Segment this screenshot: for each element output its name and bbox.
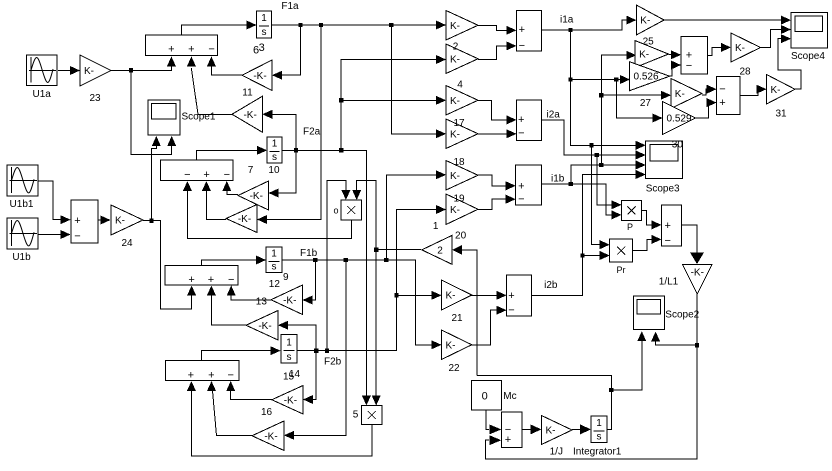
product o: [334, 200, 362, 220]
svg-text:+: +: [505, 434, 511, 446]
svg-text:K-: K-: [735, 43, 745, 54]
gain 17: [446, 118, 478, 149]
wire sum7 output to integrator10: [197, 146, 267, 160]
svg-text:K-: K-: [640, 16, 650, 27]
svg-text:0: 0: [482, 391, 488, 403]
svg-text:0.529: 0.529: [667, 114, 692, 125]
svg-text:−: −: [518, 128, 524, 140]
wire gain16 output to sum15 port3: [226, 381, 272, 400]
svg-text:11: 11: [242, 87, 253, 98]
svg-text:−: −: [227, 370, 233, 382]
wire F2b up to gain -K- sum12: [278, 321, 316, 351]
sum 6 top: [146, 35, 218, 56]
svg-text:-K-: -K-: [283, 295, 296, 306]
wire gain13 output to sum12 port3: [227, 286, 271, 301]
wire gain31 output to Scope4 port3: [778, 34, 801, 89]
integrator 15: [281, 335, 301, 383]
wire F1b up to gain18: [386, 170, 446, 260]
svg-text:+: +: [188, 370, 194, 382]
wire i1a to product Pr port1: [592, 145, 610, 249]
gain 28: [731, 33, 761, 78]
svg-text:Scope4: Scope4: [791, 51, 825, 62]
svg-text:-K-: -K-: [258, 321, 271, 332]
sine source U1b: [7, 218, 38, 263]
wire gain 0.526 output to sum A port2: [670, 61, 681, 77]
sum B: [717, 77, 740, 115]
svg-text:18: 18: [453, 157, 465, 168]
svg-text:s: s: [272, 152, 277, 163]
wire F1b down to gain -K- bottom: [284, 260, 346, 440]
gain 11: [242, 60, 272, 98]
sine source U1a: [27, 55, 58, 100]
svg-text:U1a: U1a: [33, 89, 52, 100]
wire gain4 output to sum i2a port1: [478, 100, 517, 124]
svg-text:22: 22: [448, 363, 460, 374]
sum i2a: [517, 100, 542, 141]
svg-text:i2a: i2a: [547, 110, 561, 121]
svg-text:s: s: [272, 262, 277, 273]
svg-text:-K-: -K-: [264, 431, 277, 442]
svg-text:31: 31: [775, 109, 787, 120]
svg-text:1/J: 1/J: [550, 447, 563, 458]
svg-text:+: +: [518, 180, 524, 192]
wire 1/L1 branch to Scope2 port2: [651, 332, 697, 346]
wire gain25 output to sum A port1: [669, 50, 682, 59]
svg-text:1: 1: [272, 139, 278, 150]
wire F2b up to product o port1: [327, 181, 350, 351]
svg-text:−: −: [664, 235, 670, 247]
node i2a label: [547, 110, 561, 121]
gain 13: [256, 285, 303, 315]
svg-text:1: 1: [596, 418, 602, 429]
svg-text:-K-: -K-: [691, 268, 704, 279]
wire i1a branch to gain 0.529: [616, 80, 662, 123]
svg-text:2: 2: [453, 42, 459, 53]
wire product5 output to sum15 port1: [187, 381, 372, 456]
svg-text:i1b: i1b: [551, 174, 565, 185]
svg-text:−: −: [184, 169, 190, 181]
node F1b label: [300, 248, 318, 259]
svg-text:+: +: [719, 97, 725, 109]
svg-text:-K-: -K-: [243, 110, 256, 121]
wire gain 0.529 output to sum B port2: [696, 98, 717, 118]
gain K- to Scope4: [636, 5, 664, 35]
gain 1/J: [542, 416, 573, 458]
svg-text:2: 2: [437, 245, 443, 256]
svg-text:−: −: [519, 40, 525, 52]
svg-text:s: s: [262, 27, 267, 38]
sum A: [681, 36, 707, 74]
sine source U1b1: [7, 165, 38, 210]
node gain24 output junction to Scope1 port1: [143, 136, 161, 223]
node F1a label: [281, 1, 299, 12]
wire junction down to product5 port2: [372, 250, 381, 406]
wire sum1 output to integrator3: [181, 21, 256, 36]
svg-text:Scope1: Scope1: [182, 112, 216, 123]
wire i1b up to Scope3 port3: [571, 161, 646, 185]
constant Mc: [472, 381, 517, 410]
node i2a output line to Scope3 port2: [542, 120, 646, 160]
svg-text:-K-: -K-: [284, 395, 297, 406]
svg-text:K-: K-: [115, 216, 125, 227]
svg-text:+: +: [203, 169, 209, 181]
wire gain K- top output to sum i1a port1: [478, 25, 516, 34]
gain 1/L1: [659, 265, 712, 295]
svg-text:K-: K-: [446, 291, 456, 302]
wire sum P output to gain 1/L1: [682, 225, 704, 264]
gain 4: [446, 80, 478, 116]
wire product P output to sum P port1: [642, 210, 662, 229]
integrator 10: [248, 137, 282, 176]
sum U1b: [71, 200, 98, 243]
wire gain22 output to sum i2b port2: [472, 306, 507, 345]
svg-text:3: 3: [259, 42, 265, 54]
sum 7: [161, 160, 233, 181]
wire i1a branch to gain 0.526: [571, 75, 631, 84]
wire F1a drop to gain -K- B: [257, 25, 321, 224]
svg-text:−: −: [686, 60, 692, 72]
svg-text:24: 24: [121, 238, 133, 249]
wire F2b to gain16: [303, 351, 316, 404]
wire gain28 output to Scope4 port2: [761, 25, 792, 47]
svg-text:1: 1: [261, 13, 267, 24]
svg-text:P: P: [627, 222, 633, 232]
svg-text:20: 20: [455, 230, 467, 241]
wire i2b to product Pr port2: [583, 251, 610, 260]
sum 15: [166, 361, 239, 382]
svg-text:K-: K-: [546, 426, 556, 437]
svg-text:25: 25: [643, 37, 655, 48]
svg-text:-K-: -K-: [253, 71, 266, 82]
svg-text:27: 27: [640, 98, 652, 109]
node F1a line from integrator3 to gain K- top middle: [272, 21, 446, 30]
node F2b label: [324, 357, 342, 368]
svg-text:U1b1: U1b1: [10, 199, 34, 210]
wire i2a to product P port1: [597, 155, 622, 209]
gain -K- A F2a to sum7: [238, 181, 269, 210]
wire gain2 output to sum i1a port2: [478, 41, 516, 59]
gain 2: [446, 42, 478, 74]
svg-text:9: 9: [283, 272, 289, 283]
wire gain -K- F2a to sum1 port2 diagonal: [187, 56, 232, 114]
svg-text:+: +: [74, 215, 80, 227]
node i2b label: [544, 280, 558, 291]
node i1b output line to product P port2: [542, 182, 622, 220]
svg-text:−: −: [518, 194, 524, 206]
gain 27: [640, 78, 702, 109]
wire sum A output to gain28: [707, 43, 731, 56]
wire gain -K- F2b output to sum12 port2: [207, 286, 246, 326]
svg-text:12: 12: [269, 279, 281, 290]
svg-text:K-: K-: [450, 54, 460, 65]
node gain 1/L1 output down to sum Mc port2: [485, 294, 699, 459]
svg-text:1/L1: 1/L1: [659, 277, 679, 288]
node F1b line from integrator9 to gain22: [282, 258, 442, 350]
wire F1a drop to gain17: [391, 25, 446, 138]
wire U1a to gain 23: [58, 66, 80, 75]
sum 12: [165, 266, 238, 287]
sum i1b: [516, 165, 542, 206]
gain 19: [446, 194, 478, 225]
sum i1a: [516, 10, 541, 51]
gain 23: [80, 55, 111, 104]
svg-text:+: +: [508, 290, 514, 302]
svg-text:-K-: -K-: [250, 191, 263, 202]
gain 18: [446, 157, 478, 190]
scope Scope2: [634, 296, 700, 330]
svg-text:i2b: i2b: [544, 280, 558, 291]
svg-text:Scope2: Scope2: [665, 310, 699, 321]
integrator Integrator1: [573, 416, 622, 458]
wire U1b1 to sum port1: [38, 181, 71, 224]
svg-text:K-: K-: [84, 66, 94, 77]
svg-text:−: −: [228, 274, 234, 286]
svg-text:−: −: [508, 305, 514, 317]
svg-text:+: +: [208, 274, 214, 286]
scope Scope3: [646, 140, 684, 195]
wire sum12 output to integrator9: [201, 256, 266, 266]
svg-text:28: 28: [739, 67, 751, 78]
gain -K- F2b to sum12: [246, 311, 278, 341]
svg-text:1: 1: [433, 221, 439, 232]
svg-text:+: +: [518, 114, 524, 126]
node F2a line from integrator10: [282, 148, 371, 405]
gain K- top middle: [446, 11, 478, 41]
wire gain11 output to sum1 port3: [207, 56, 242, 75]
gain -K- B F1a to sum7: [226, 205, 257, 233]
wire gain -K- A output to sum7 port3: [222, 181, 238, 195]
gain 24: [111, 205, 143, 249]
wire gain -K- bottom output to sum15 port2: [207, 381, 252, 436]
gain -K- F2a to sum1: [232, 96, 262, 132]
wire gain17 output to sum i2a port2: [478, 129, 517, 138]
svg-text:10: 10: [268, 165, 280, 176]
wire gain23 output to sum1 port1, junction: [111, 56, 176, 72]
node F2a label: [303, 127, 321, 138]
svg-text:Integrator1: Integrator1: [573, 447, 622, 458]
svg-text:-K-: -K-: [238, 214, 251, 225]
product Pr: [610, 239, 633, 275]
wire F1b down to gain13: [303, 260, 316, 305]
svg-text:+: +: [519, 24, 525, 36]
svg-text:1: 1: [271, 248, 277, 259]
svg-text:23: 23: [89, 93, 101, 104]
svg-text:15: 15: [283, 372, 295, 383]
gain 16: [261, 386, 303, 419]
wire gain 1/J output to integrator1: [572, 424, 591, 434]
svg-text:K-: K-: [639, 50, 649, 61]
svg-text:30: 30: [672, 140, 684, 151]
svg-text:1: 1: [286, 337, 292, 348]
svg-text:+: +: [188, 274, 194, 286]
sum Mc: [502, 412, 523, 448]
wire F2b branch to gain21: [397, 291, 442, 300]
wire F2a down to gain -K- A: [269, 150, 297, 197]
svg-text:i1a: i1a: [560, 15, 574, 26]
svg-text:0.526: 0.526: [634, 72, 659, 83]
svg-text:K-: K-: [450, 205, 460, 216]
wire gain18 output to sum i1b port1: [478, 175, 516, 191]
product 5: [353, 406, 382, 425]
gain 22: [442, 330, 472, 374]
gain -K- bottom F1b to sum15: [252, 421, 284, 451]
svg-text:U1b: U1b: [12, 252, 31, 263]
svg-text:K-: K-: [450, 21, 460, 32]
scope Scope4: [791, 13, 827, 63]
svg-text:+: +: [168, 44, 174, 56]
wire Mc to sum Mc port1: [486, 410, 501, 434]
wire i1a down to Scope3 port1: [568, 30, 645, 150]
svg-text:F1b: F1b: [300, 248, 318, 259]
wire gain21 output to sum i2b port1: [472, 291, 507, 300]
svg-text:Scope3: Scope3: [646, 184, 680, 195]
gain 31: [767, 75, 796, 120]
svg-text:−: −: [224, 169, 230, 181]
node i1a output line: [542, 16, 637, 33]
wire F2a up to gain2: [341, 55, 446, 100]
wire junction up to product o port2: [352, 181, 376, 250]
wire sum Mc output to gain 1/J: [522, 424, 541, 434]
svg-text:K-: K-: [446, 340, 456, 351]
gain 21: [442, 280, 472, 324]
svg-text:K-: K-: [675, 89, 685, 100]
wire sum B output to gain31: [740, 85, 767, 96]
wire integrator1 output up to triangle2 input: [452, 245, 477, 376]
wire sum15 output to integrator15: [201, 346, 280, 360]
gain 0.529: [663, 102, 696, 135]
svg-text:−: −: [208, 44, 214, 56]
svg-text:4: 4: [457, 80, 463, 91]
sum P: [662, 205, 682, 247]
svg-text:16: 16: [261, 407, 273, 418]
wire triangle2 output junction: [374, 247, 421, 251]
svg-text:19: 19: [453, 194, 465, 205]
node F2b line from integrator15 to gain19: [297, 205, 446, 353]
product P: [622, 201, 642, 232]
node i2b output line up to Scope3 port4: [532, 170, 646, 296]
wire product o output to sum7 port1: [183, 181, 351, 239]
gain 25: [635, 37, 668, 68]
gain 2 triangle: [422, 221, 467, 264]
svg-text:21: 21: [451, 313, 463, 324]
node i1a label: [560, 15, 574, 26]
wire gain27 output to sum B port1: [702, 85, 717, 96]
svg-text:F2a: F2a: [303, 127, 321, 138]
svg-text:Mc: Mc: [503, 391, 516, 402]
wire i1b up to gains 25 27: [599, 51, 636, 165]
wire F2a up to gain4: [339, 96, 446, 151]
wire integrator1 to Scope2 port1: [611, 331, 646, 390]
sum i2b: [507, 275, 532, 317]
svg-text:−: −: [719, 84, 725, 96]
svg-text:13: 13: [256, 297, 268, 308]
svg-text:Pr: Pr: [617, 265, 626, 275]
wire gain K- output to Scope4 port1: [664, 16, 791, 25]
svg-text:−: −: [74, 231, 80, 243]
svg-text:+: +: [208, 370, 214, 382]
svg-text:o: o: [334, 206, 339, 216]
svg-text:17: 17: [453, 118, 465, 129]
svg-text:K-: K-: [450, 96, 460, 107]
wire F1a drop to gain11: [272, 25, 301, 80]
wire gain23 junction down to Scope1 port2: [131, 71, 176, 155]
gain 0.526: [630, 62, 670, 91]
svg-text:K-: K-: [771, 85, 781, 96]
node integrator1 output junction: [477, 376, 614, 430]
svg-text:s: s: [597, 432, 602, 443]
integrator 9: [266, 247, 289, 290]
svg-text:5: 5: [353, 410, 359, 421]
wire gain -K- B output to sum7 port2: [202, 181, 226, 220]
svg-text:+: +: [188, 44, 194, 56]
wire gain19 output to sum i1b port2: [478, 195, 516, 210]
scope Scope1: [148, 100, 216, 135]
node i1b label: [551, 174, 565, 185]
wire i1b branch to gain27: [601, 91, 671, 100]
svg-text:7: 7: [248, 165, 254, 176]
wire gain24 junction to sum12 port1: [152, 221, 197, 309]
integrator 3: [253, 11, 272, 57]
wire U1b to sum port2: [38, 230, 71, 239]
svg-text:s: s: [287, 352, 292, 363]
svg-text:K-: K-: [450, 129, 460, 140]
wire product Pr output to sum P port2: [633, 235, 662, 251]
svg-text:+: +: [664, 220, 670, 232]
svg-text:F1a: F1a: [281, 1, 299, 12]
svg-text:K-: K-: [450, 171, 460, 182]
wire F2a up to gain -K- sum1: [262, 110, 296, 151]
svg-text:F2b: F2b: [324, 357, 342, 368]
wire sum to gain24: [98, 216, 111, 225]
